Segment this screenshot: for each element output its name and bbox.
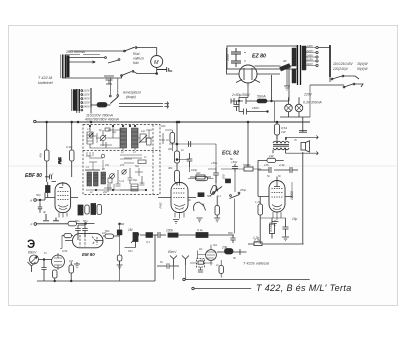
pilot lamp L1 xyxy=(285,104,293,112)
svg-text:50k: 50k xyxy=(105,229,110,233)
svg-text:17k: 17k xyxy=(264,163,269,167)
wire output rail xyxy=(302,117,304,244)
cap C30 xyxy=(41,264,46,273)
wire V1 leads xyxy=(46,197,79,199)
V1 pins xyxy=(59,213,67,218)
switch S1a xyxy=(125,47,135,51)
speaker plugs xyxy=(286,136,319,140)
resistor R6 xyxy=(85,205,89,214)
wire motor feed xyxy=(136,47,157,49)
switch S4 xyxy=(230,195,232,197)
svg-text:50n: 50n xyxy=(75,219,80,223)
filter box FL1 xyxy=(197,259,205,268)
ground G5 xyxy=(74,262,80,268)
osc coil L3 xyxy=(132,128,139,148)
TR ground xyxy=(284,66,290,90)
selector bar xyxy=(329,45,331,77)
resistor R34 xyxy=(168,233,178,237)
svg-text:220V: 220V xyxy=(303,93,313,97)
trimmer C2 xyxy=(140,134,146,142)
wire T1 to node xyxy=(69,57,104,59)
wire R1 xyxy=(46,122,48,182)
phono cable pair xyxy=(119,104,163,107)
svg-text:100: 100 xyxy=(222,174,226,179)
grid arrow tap xyxy=(69,61,95,63)
svg-text:1,2k: 1,2k xyxy=(255,200,261,204)
terminal b xyxy=(192,287,194,289)
svg-text:50n: 50n xyxy=(228,231,233,235)
heater loop box xyxy=(227,46,297,69)
svg-text:125V: 125V xyxy=(83,93,89,97)
junction bus electrode xyxy=(90,121,92,123)
resistor R35 xyxy=(225,249,234,255)
ground G3 xyxy=(272,220,279,225)
svg-text:EBF 80: EBF 80 xyxy=(25,173,42,179)
wire bottom loop xyxy=(62,76,122,79)
svg-text:FM2: FM2 xyxy=(159,202,163,208)
main HT bus wire xyxy=(36,121,310,123)
tiny value labels in box xyxy=(85,128,147,194)
wires top half xyxy=(96,126,153,138)
junction R2 bus xyxy=(71,121,73,123)
grid cap C34 xyxy=(117,230,122,235)
terminal node xyxy=(34,120,36,122)
wire V4 leads xyxy=(65,240,103,242)
wire motor bottom xyxy=(156,68,158,74)
electrode bar xyxy=(90,88,92,108)
screen resistor R4 xyxy=(68,221,77,226)
wire fuse right xyxy=(107,104,111,106)
ground G4 xyxy=(282,234,289,241)
V2 pins xyxy=(175,213,184,219)
wire transformer HT xyxy=(288,66,290,101)
coil screen parts xyxy=(165,130,172,133)
svg-text:110/125/145V: 110/125/145V xyxy=(333,62,353,66)
dark resistor R16 xyxy=(198,193,204,197)
primary taps xyxy=(306,48,316,66)
headphone jack xyxy=(104,76,114,84)
svg-text:50p: 50p xyxy=(135,165,140,168)
svg-text:80p: 80p xyxy=(133,179,138,182)
tone cap C25 xyxy=(299,130,307,132)
junction HT1 xyxy=(271,100,273,102)
mains transformer TR core xyxy=(298,45,301,85)
junction HT2 xyxy=(267,111,269,113)
vertical feeds to bus xyxy=(77,108,91,114)
feedback resistor R23 xyxy=(267,158,276,162)
pickup plugs xyxy=(170,256,177,266)
resistor R20 xyxy=(226,179,231,183)
svg-text:kivitelnél: kivitelnél xyxy=(38,81,53,85)
boxed filter FL1 xyxy=(219,266,223,274)
svg-text:30k: 30k xyxy=(168,166,173,170)
wire EZ80 cathode xyxy=(257,74,280,101)
selector note xyxy=(332,62,368,71)
svg-text:A: A xyxy=(29,199,32,203)
junction output bus xyxy=(276,121,278,123)
terminal a xyxy=(183,278,185,280)
svg-text:50p: 50p xyxy=(36,193,41,197)
resistor R36 xyxy=(117,261,123,269)
cathode cap C11 xyxy=(213,167,219,183)
grid cap C5 xyxy=(46,186,51,193)
svg-text:T 422e változat: T 422e változat xyxy=(243,262,270,266)
resistor R30 xyxy=(53,270,58,278)
svg-text:220V: 220V xyxy=(306,49,315,53)
coupling cap C32 xyxy=(163,263,169,271)
wire HT xyxy=(267,100,289,102)
resistor R1 xyxy=(45,150,50,161)
resistor R11 xyxy=(175,171,180,183)
svg-text:1n: 1n xyxy=(166,138,170,142)
50n cap xyxy=(230,235,235,243)
cap C31 xyxy=(146,233,153,238)
speaker LS xyxy=(301,143,306,151)
svg-text:változó: változó xyxy=(133,57,144,61)
TR heater winding xyxy=(292,69,296,83)
heater wire xyxy=(280,116,310,118)
tube V1 EBF80 xyxy=(55,183,71,213)
transformer T1 core xyxy=(63,55,66,79)
ground G2 xyxy=(173,220,179,224)
cap C20 xyxy=(232,164,238,172)
svg-text:futó: futó xyxy=(133,61,139,65)
junction bus T2 xyxy=(77,121,79,123)
svg-text:6,3V 300mA: 6,3V 300mA xyxy=(303,101,322,105)
terminal mark xyxy=(231,99,234,104)
band switch hook xyxy=(194,202,204,211)
svg-text:T 422-M: T 422-M xyxy=(38,76,53,80)
svg-text:D1: D1 xyxy=(199,247,203,251)
AM coil L6 xyxy=(131,184,138,191)
svg-text:T 422, B és M/L′ Terta: T 422, B és M/L′ Terta xyxy=(256,283,352,293)
svg-text:470: 470 xyxy=(120,164,125,167)
diode load R5 xyxy=(78,205,83,215)
top resistor R15 xyxy=(196,177,208,181)
svg-text:2,2k: 2,2k xyxy=(278,163,285,167)
wire EZ80 anode left xyxy=(227,48,240,74)
svg-text:EZ 80: EZ 80 xyxy=(252,54,266,60)
resistor R21 xyxy=(244,167,253,171)
svg-text:0,3M: 0,3M xyxy=(66,145,73,149)
tube V4 EM80 (magic eye) xyxy=(73,234,104,248)
germanium diode D1 xyxy=(206,250,217,261)
wire to motor return xyxy=(133,71,157,73)
resistor R32 xyxy=(105,234,114,238)
svg-text:1,2k: 1,2k xyxy=(253,236,259,240)
svg-text:0,1μ: 0,1μ xyxy=(197,228,203,232)
surge resistor R40 xyxy=(280,64,291,71)
feed wire xyxy=(119,224,121,281)
svg-text:50n: 50n xyxy=(83,219,88,223)
mains switch S3 xyxy=(332,76,342,79)
svg-text:20k: 20k xyxy=(195,171,201,175)
wire terminal a xyxy=(185,279,310,281)
B+ feed down xyxy=(239,87,248,102)
resistor R31 xyxy=(69,265,74,273)
FM coil L1 xyxy=(87,132,93,144)
transformer T2 winding xyxy=(73,90,76,111)
svg-text:240V: 240V xyxy=(306,44,315,48)
svg-text:10k: 10k xyxy=(161,124,166,128)
svg-text:15μ: 15μ xyxy=(292,217,298,221)
decoupling cap C10 xyxy=(187,153,193,167)
svg-text:100k: 100k xyxy=(166,229,173,233)
top coupling cap C6 xyxy=(45,175,56,182)
svg-text:150V: 150V xyxy=(252,106,260,110)
transformer T1 winding xyxy=(67,56,70,78)
output transformer TR2 xyxy=(273,141,289,143)
grid resistor R12 xyxy=(196,175,205,179)
osc coil L2 xyxy=(120,128,127,148)
svg-text:20k: 20k xyxy=(167,147,173,151)
wire terminal b xyxy=(194,288,251,290)
cathode resistor R24 xyxy=(258,204,263,215)
svg-text:25p: 25p xyxy=(104,164,110,167)
svg-text:80mV: 80mV xyxy=(28,251,37,255)
triode V6 xyxy=(52,255,65,268)
switch contacts xyxy=(109,95,111,97)
tap terminals xyxy=(316,46,318,48)
wire R2 xyxy=(71,122,73,177)
svg-text:3-12: 3-12 xyxy=(119,180,125,183)
svg-text:50(4)W: 50(4)W xyxy=(357,67,368,71)
fuse F1 xyxy=(97,103,107,108)
svg-text:lemezjátszó: lemezjátszó xyxy=(123,91,141,95)
filter capacitor C40a xyxy=(231,48,241,58)
switch S1b xyxy=(122,72,132,76)
wire mains xyxy=(310,84,344,86)
svg-text:240p: 240p xyxy=(85,155,92,158)
svg-text:M: M xyxy=(154,60,159,66)
input terminal A1 xyxy=(34,199,37,202)
wire V3 leads xyxy=(258,196,293,198)
svg-text:110V: 110V xyxy=(83,89,89,93)
tube V2 ECH81 xyxy=(171,183,188,213)
small parts texture xyxy=(104,176,145,192)
resistor R2 xyxy=(70,150,75,161)
svg-text:5n: 5n xyxy=(278,174,282,178)
AVC wire xyxy=(34,223,37,226)
trimmer C1 xyxy=(100,135,105,140)
antenna ANT1 xyxy=(28,262,36,272)
tube V3 ECL82 xyxy=(269,181,285,213)
svg-text:125V: 125V xyxy=(307,58,315,62)
AM coil L4 xyxy=(87,172,92,186)
svg-text:Rúd-: Rúd- xyxy=(133,52,141,56)
svg-text:5n: 5n xyxy=(160,260,164,264)
coupling caps C21 C22 xyxy=(258,167,271,176)
pickup head MIC xyxy=(30,255,39,264)
cathode bypass C23 xyxy=(270,224,275,234)
ground G1 xyxy=(43,214,49,221)
wires xyxy=(39,260,52,265)
svg-text:3n: 3n xyxy=(188,198,192,202)
bottom ground bus xyxy=(37,280,150,282)
rectifier tube V5 EZ80 xyxy=(239,65,257,83)
dropper resistor R22 xyxy=(275,124,280,135)
osc pot P2 xyxy=(210,185,218,195)
TR primary winding xyxy=(302,46,306,70)
heater cap C41 xyxy=(234,101,240,112)
svg-text:250p: 250p xyxy=(239,188,247,192)
svg-text:0,1: 0,1 xyxy=(146,240,150,244)
svg-text:Э: Э xyxy=(27,239,35,251)
fold line xyxy=(9,165,397,167)
svg-text:10n: 10n xyxy=(128,249,133,253)
T2 tap labels xyxy=(82,89,89,109)
detector chain wire xyxy=(247,122,249,167)
svg-text:240V: 240V xyxy=(82,105,89,109)
wire switch risers xyxy=(110,78,118,95)
svg-text:50n: 50n xyxy=(243,163,248,167)
junction R1 bus xyxy=(46,121,48,123)
svg-text:45k: 45k xyxy=(39,152,43,157)
resistor R7 xyxy=(91,204,96,215)
svg-text:30: 30 xyxy=(283,59,287,63)
wire mains down xyxy=(309,85,311,117)
svg-text:1M: 1M xyxy=(128,228,133,232)
svg-text:EM 80: EM 80 xyxy=(82,252,95,257)
input cap C7 xyxy=(38,203,42,213)
svg-text:6,8k: 6,8k xyxy=(62,249,68,253)
svg-text:3p: 3p xyxy=(43,210,47,214)
svg-text:0,3M: 0,3M xyxy=(118,222,125,226)
extra tuner parts xyxy=(93,130,122,143)
svg-text:220V: 220V xyxy=(82,101,89,105)
svg-text:5n: 5n xyxy=(267,174,271,178)
svg-text:1n: 1n xyxy=(216,263,220,267)
transformer T2 core xyxy=(77,89,79,111)
cap C33 xyxy=(196,233,208,238)
wire fuse left xyxy=(91,104,97,106)
resistor R33 xyxy=(117,255,122,261)
svg-text:+50μ: +50μ xyxy=(211,161,218,165)
V3 pins xyxy=(273,212,281,220)
svg-text:30p: 30p xyxy=(112,131,117,134)
wire top to switch xyxy=(69,50,124,52)
wire AF feed xyxy=(248,243,304,245)
svg-text:F: F xyxy=(31,223,33,227)
volume pot P1 xyxy=(133,233,138,242)
left lead resistor R37 xyxy=(64,234,72,238)
IF wire xyxy=(169,144,216,167)
svg-text:50k: 50k xyxy=(207,194,212,198)
svg-text:220(240)V: 220(240)V xyxy=(332,67,349,71)
junction bus mid xyxy=(178,121,180,123)
svg-text:20k: 20k xyxy=(221,246,228,250)
svg-text:1M: 1M xyxy=(69,259,74,263)
trimmers bottom xyxy=(110,174,115,179)
wire V2 leads xyxy=(158,197,196,199)
svg-text:12p: 12p xyxy=(141,130,146,133)
cap C24 xyxy=(283,222,289,234)
svg-text:0,1: 0,1 xyxy=(217,194,221,198)
svg-text:ECL 82: ECL 82 xyxy=(222,151,239,157)
wire motor top xyxy=(156,48,158,56)
band switch arm xyxy=(214,187,223,193)
TR secondary HT winding xyxy=(292,48,296,66)
svg-text:OA: OA xyxy=(213,243,217,247)
svg-text:(dugó): (dugó) xyxy=(126,95,136,99)
plug contact right xyxy=(157,67,173,72)
svg-text:50mA: 50mA xyxy=(257,95,266,99)
junction detector bus xyxy=(247,121,249,123)
coupling caps 50n xyxy=(75,225,81,234)
resistor R14 xyxy=(215,206,219,216)
svg-text:145V: 145V xyxy=(83,97,89,101)
svg-text:80mV: 80mV xyxy=(168,250,177,254)
motor M1 xyxy=(151,56,163,68)
wire selector taps xyxy=(318,48,330,83)
pilot lamp L2 xyxy=(295,104,303,112)
T2 taps xyxy=(81,90,83,92)
AM coil L5 xyxy=(101,172,106,184)
svg-text:20p: 20p xyxy=(102,191,108,194)
svg-text:FM1: FM1 xyxy=(58,157,62,164)
junction xyxy=(156,73,158,75)
svg-text:35(4)W: 35(4)W xyxy=(357,62,368,66)
dashed enclosure xyxy=(83,125,160,195)
resistor R10 xyxy=(175,151,180,163)
switch arm mid xyxy=(108,60,119,63)
